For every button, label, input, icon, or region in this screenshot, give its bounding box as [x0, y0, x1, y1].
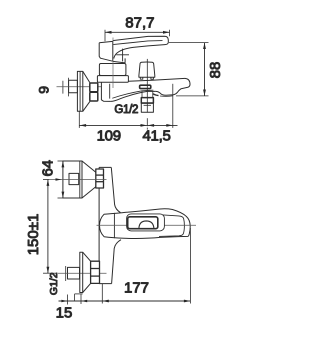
outlet dash-dot centerline — [146, 59, 148, 130]
bottom connector centerline — [58, 272, 107, 274]
spout end cap line (plan) — [159, 215, 184, 237]
connector horizontal centerline — [57, 86, 102, 88]
body top band — [97, 76, 128, 83]
bottom connector pipe (plan) — [68, 267, 80, 279]
bottom connector flange (plan) — [80, 252, 83, 292]
dim 9 tick marks — [63, 78, 69, 97]
plan view horizontal centerline — [97, 224, 197, 226]
hex nut (side view) — [90, 83, 98, 101]
svg-text:G1/2: G1/2 — [48, 272, 60, 295]
escutcheon flange (side view) — [77, 71, 82, 111]
body capsule with spout (plan) — [99, 209, 190, 239]
vertical centerline of cartridge — [112, 38, 114, 89]
spout underside double curve — [110, 90, 172, 101]
dim 150±1 dimension line — [43, 180, 56, 274]
inner fitting block under spout — [140, 85, 151, 88]
svg-text:64: 64 — [40, 160, 57, 177]
bottom connector hex nut (plan) — [91, 261, 100, 283]
svg-text:41,5: 41,5 — [143, 127, 171, 144]
svg-text:109: 109 — [97, 127, 121, 144]
bottom connector tick — [65, 266, 67, 281]
cartridge collar — [99, 64, 126, 76]
svg-text:87,7: 87,7 — [125, 14, 154, 31]
dim 87,7 dimension line — [105, 30, 170, 42]
faucet body (side view) — [101, 82, 110, 101]
top connector flange rect (plan) — [63, 161, 82, 198]
svg-text:9: 9 — [35, 86, 51, 94]
svg-text:150±1: 150±1 — [25, 214, 42, 256]
top connector cone (plan) — [82, 161, 96, 198]
dim 88 dimension line — [169, 43, 209, 96]
wall pipe (side view, left connector) — [69, 80, 78, 93]
svg-text:88: 88 — [207, 62, 224, 79]
escutcheon cone — [83, 71, 90, 111]
svg-text:15: 15 — [56, 304, 73, 321]
small arrow on centerline — [56, 178, 62, 181]
dim 109 / 41,5 dimension line — [79, 84, 177, 128]
svg-text:177: 177 — [124, 280, 149, 297]
manifold hidden edge through body — [113, 213, 115, 238]
manifold (plan, wall-mount body) — [99, 167, 121, 283]
lever pivot cross mark — [116, 49, 129, 62]
top connector hex nut (plan) — [96, 169, 104, 188]
diverter knob — [139, 62, 155, 79]
lever seen from above — [127, 214, 165, 231]
dim 64 dimension line with arrows — [58, 161, 69, 198]
shower outlet fitting G1/2 — [141, 90, 153, 113]
dim 15 / 177 dimension line — [59, 228, 191, 305]
top connector pipe (plan) — [69, 173, 79, 184]
spout top edge — [128, 78, 185, 81]
lever base dome — [113, 58, 125, 63]
bottom connector cone (plan) — [83, 252, 91, 292]
lever handle side view — [99, 36, 168, 61]
top connector centerline — [49, 179, 107, 181]
spout tip — [156, 78, 190, 95]
svg-text:G1/2: G1/2 — [114, 104, 138, 116]
